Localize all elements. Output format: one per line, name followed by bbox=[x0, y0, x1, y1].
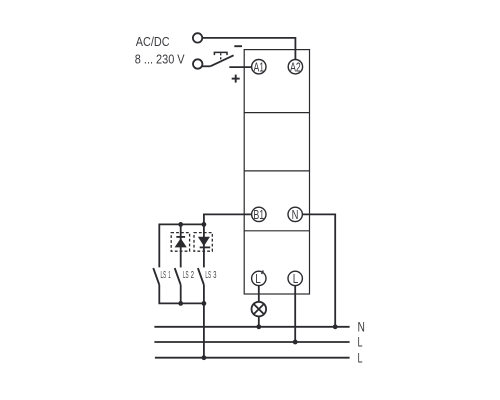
svg-text:N: N bbox=[292, 207, 299, 222]
svg-text:L: L bbox=[358, 335, 363, 350]
svg-text:B1: B1 bbox=[253, 207, 264, 222]
svg-text:L: L bbox=[358, 350, 363, 365]
svg-text:LS: LS bbox=[183, 270, 189, 281]
svg-text:N: N bbox=[358, 320, 365, 335]
svg-text:LS: LS bbox=[161, 270, 167, 281]
svg-text:2: 2 bbox=[191, 270, 194, 281]
svg-text:1: 1 bbox=[168, 270, 170, 281]
svg-text:L: L bbox=[255, 271, 261, 286]
svg-text:8 ... 230 V: 8 ... 230 V bbox=[135, 52, 185, 66]
svg-text:A1: A1 bbox=[254, 59, 265, 74]
svg-text:L: L bbox=[293, 271, 299, 286]
svg-text:3: 3 bbox=[213, 270, 216, 281]
svg-text:LS: LS bbox=[205, 270, 211, 281]
svg-text:AC/DC: AC/DC bbox=[136, 35, 170, 49]
svg-text:A2: A2 bbox=[290, 59, 301, 74]
